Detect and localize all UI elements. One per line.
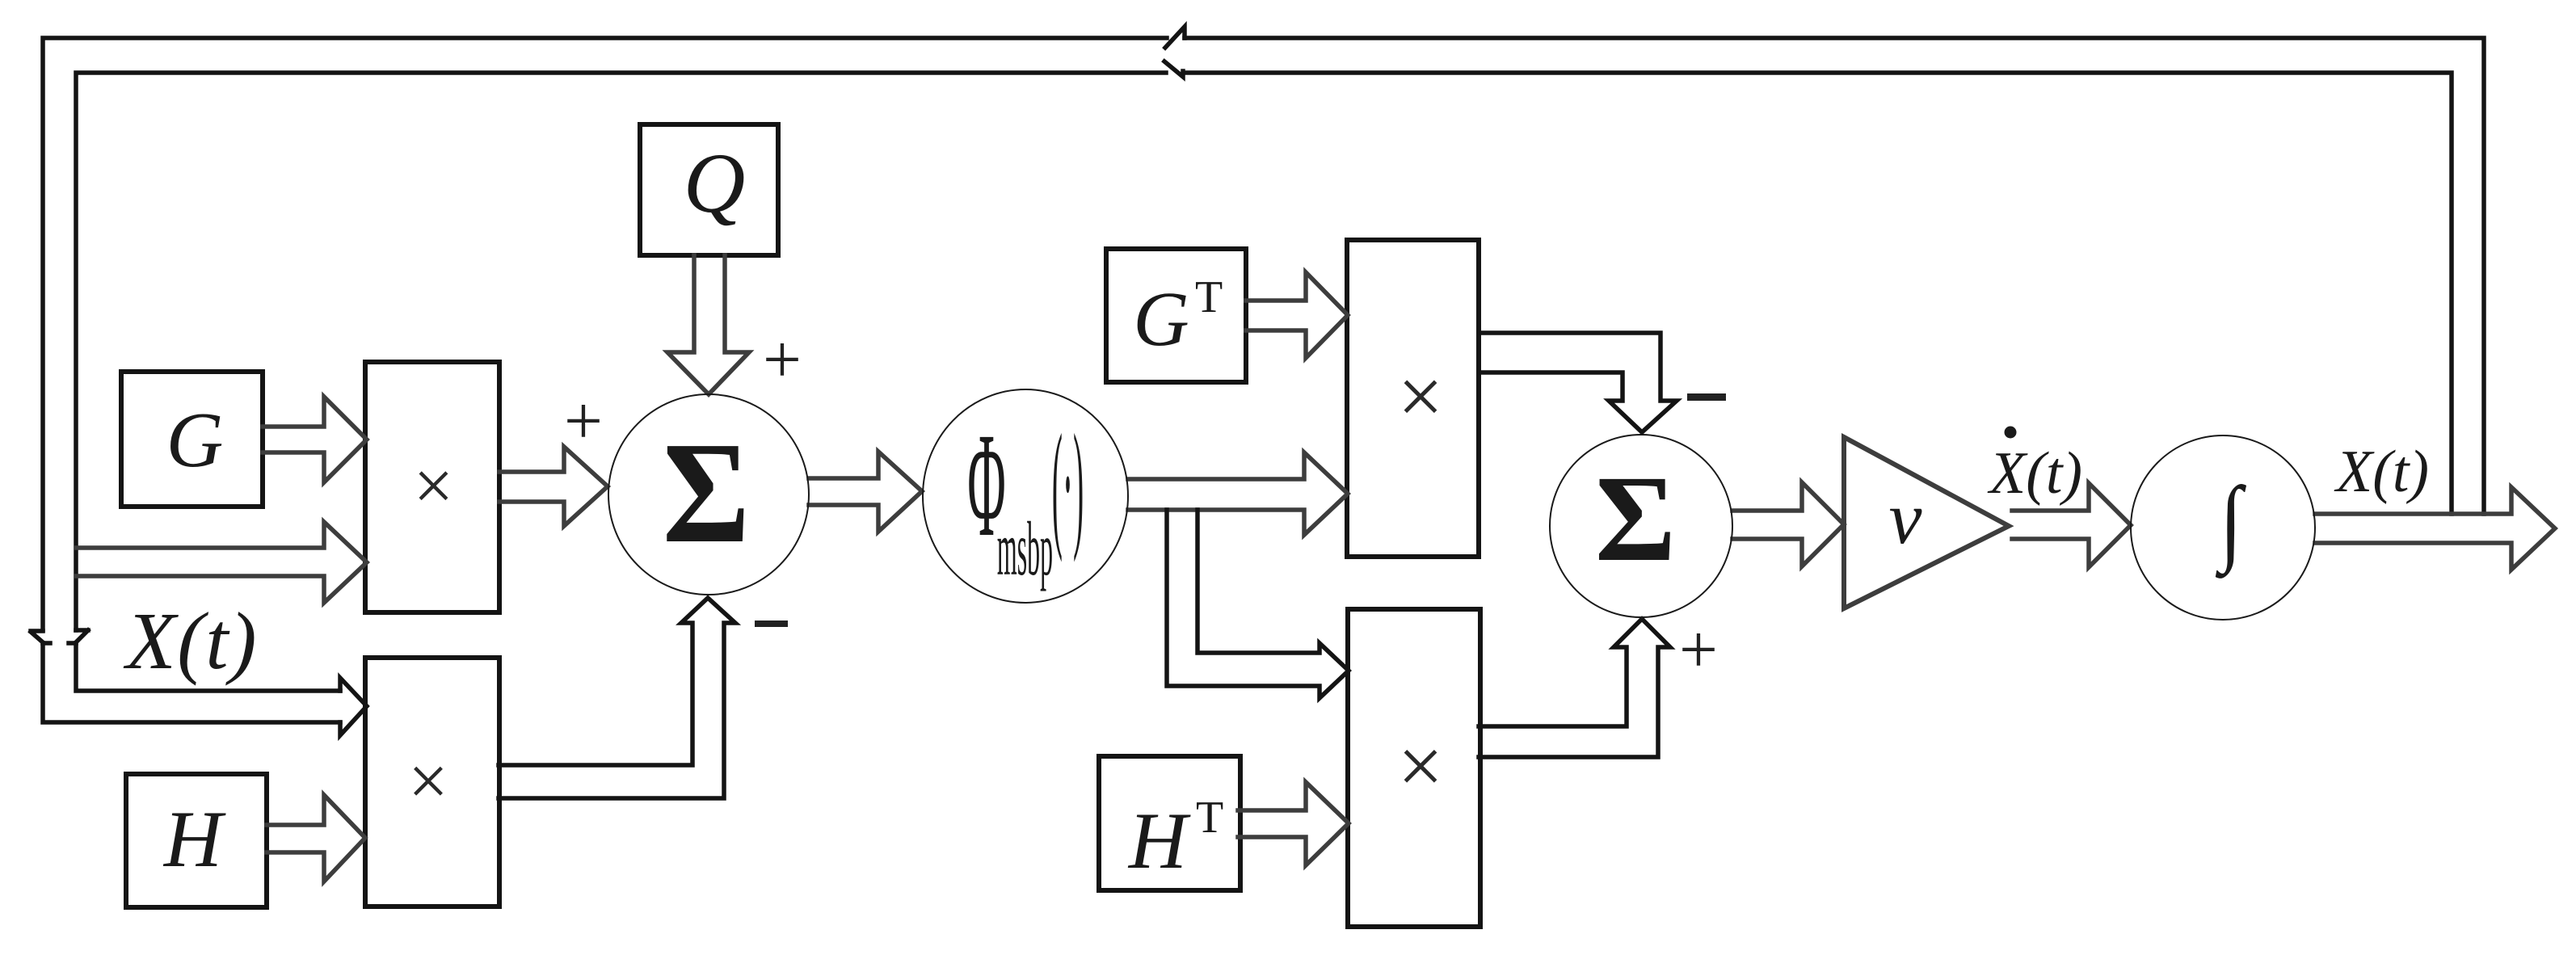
arrow phi to upper-right multiplier <box>1128 452 1348 535</box>
arrow G^T to upper-right multiplier <box>1246 272 1348 358</box>
arrow break mark on inner left vertical <box>69 630 88 643</box>
arrow G to upper-left multiplier <box>263 397 367 482</box>
integrator circle <box>2131 435 2315 620</box>
arrow sum 1 to phi <box>809 452 922 532</box>
activation function circle phi <box>923 389 1128 603</box>
box G transpose <box>1106 249 1246 382</box>
svg-text:T: T <box>1195 272 1223 322</box>
arrow upper-left multiplier to sum 1 <box>499 447 608 526</box>
svg-text:Σ: Σ <box>663 413 750 574</box>
arrow break mark on inner top line <box>1164 61 1183 77</box>
svg-text:Σ: Σ <box>1595 451 1676 587</box>
box H transpose <box>1099 756 1240 890</box>
svg-text:×: × <box>1398 722 1443 811</box>
arrow H to lower-left multiplier <box>267 795 365 881</box>
svg-text:ν: ν <box>1889 477 1922 559</box>
arrow Q to sum 1 <box>667 255 749 394</box>
wire inner feedback loop top-left segment <box>76 73 1166 630</box>
svg-text:+: + <box>1679 612 1718 688</box>
svg-text:G: G <box>1133 276 1189 362</box>
wire lower-left multiplier to sum 1 minus input <box>499 598 735 798</box>
wire outer feedback loop lower-left segment <box>43 643 340 722</box>
arrow gain nu to integrator <box>2012 483 2131 567</box>
svg-text:+: + <box>564 383 603 459</box>
svg-text:X(t): X(t) <box>2334 439 2429 505</box>
box H <box>126 774 267 907</box>
arrow X(t) branch to upper-left multiplier <box>76 522 367 603</box>
wire lower-right multiplier to sum 2 plus input <box>1479 619 1670 757</box>
svg-text:(·): (·) <box>1052 405 1084 563</box>
wire inner feedback loop right+top segment <box>1185 73 2452 514</box>
wire outer feedback loop right+top segment <box>1185 38 2484 514</box>
svg-text:×: × <box>1398 351 1443 441</box>
svg-text:msbp: msbp <box>997 507 1053 592</box>
svg-text:X(t): X(t) <box>123 595 258 686</box>
arrow H^T to lower-right multiplier <box>1238 782 1349 865</box>
svg-text:∫: ∫ <box>2216 467 2246 578</box>
arrow break mark on outer top line <box>1165 27 1185 48</box>
multiplier block lower-left <box>365 658 499 907</box>
arrow sum 2 to gain nu <box>1732 482 1844 566</box>
wire phi branch down to lower-right multiplier <box>1167 510 1349 698</box>
multiplier block upper-right <box>1347 240 1479 557</box>
box Q <box>640 124 778 255</box>
arrow break mark on outer left vertical <box>31 631 50 643</box>
svg-text:H: H <box>162 794 226 884</box>
wire inner feedback loop lower-left segment <box>76 643 340 691</box>
label minus at sum2 top input <box>1687 393 1726 401</box>
svg-text:×: × <box>408 743 448 821</box>
multiplier block lower-right <box>1348 609 1480 927</box>
arrowhead X(t) feedback into lower multiplier <box>340 678 367 735</box>
svg-text:T: T <box>1196 793 1223 843</box>
multiplier block upper-left <box>365 362 499 612</box>
wire outer feedback loop top-left segment <box>43 38 1167 630</box>
wire upper-right multiplier to sum 2 minus input <box>1479 333 1677 432</box>
label minus at sum1 bottom input <box>755 621 788 627</box>
svg-text:Q: Q <box>684 136 746 230</box>
svg-text:X(t): X(t) <box>1987 440 2082 507</box>
gain triangle nu <box>1844 437 2009 608</box>
box G <box>121 372 263 507</box>
svg-text:G: G <box>166 397 224 484</box>
dot of Xdot <box>2005 427 2017 439</box>
svg-text:H: H <box>1127 796 1191 886</box>
sum node 2 circle <box>1550 435 1732 617</box>
svg-text:+: + <box>763 322 802 398</box>
svg-text:×: × <box>414 448 454 526</box>
sum node 1 circle <box>608 394 809 595</box>
arrow integrator to output X(t) <box>2315 487 2555 570</box>
